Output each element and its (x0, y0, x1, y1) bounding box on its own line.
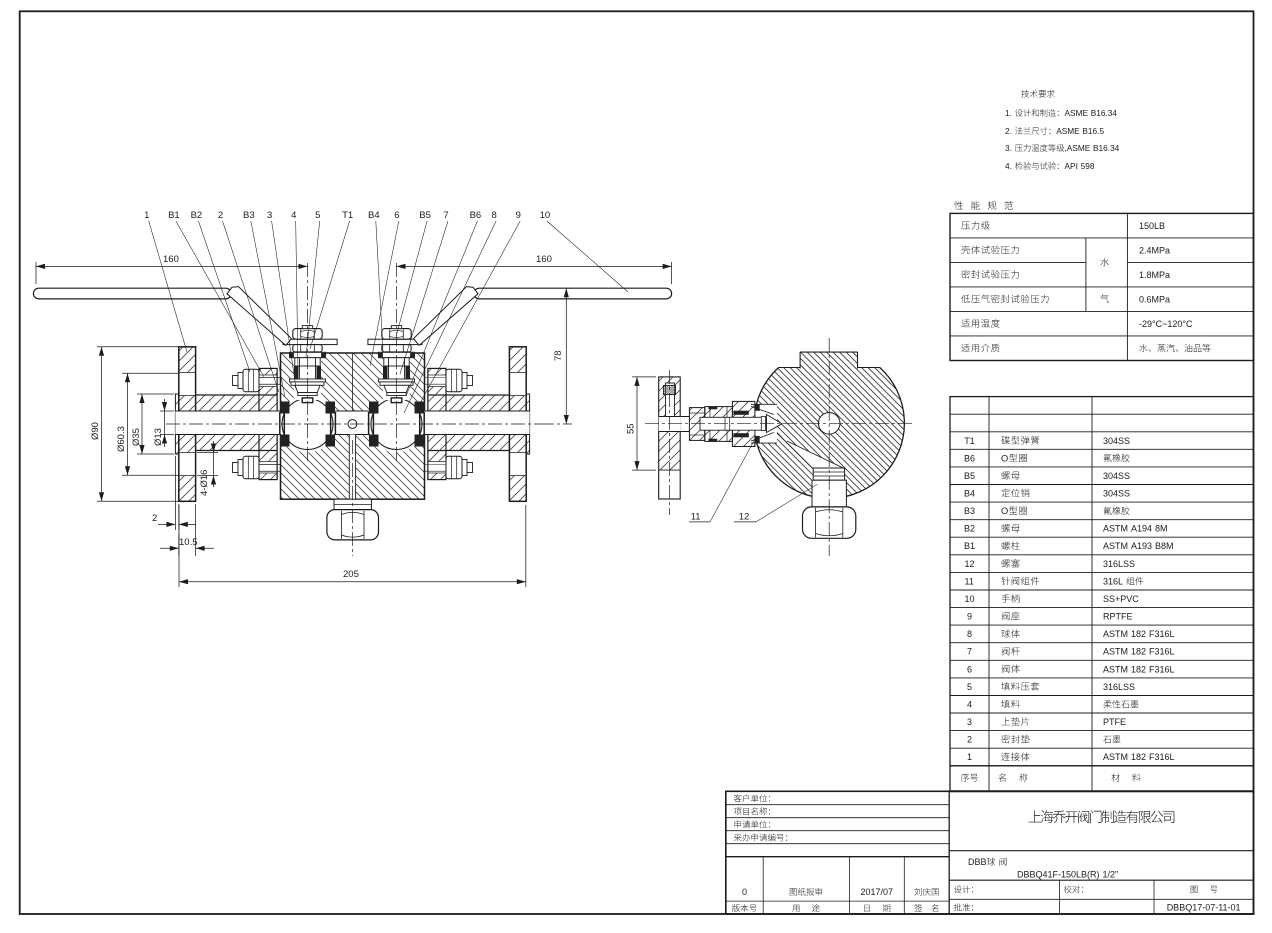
label 3 leader (272, 221, 296, 388)
front view: washer (238, 460, 243, 476)
svg-text:DBBQ17-07-11-01: DBBQ17-07-11-01 (1167, 903, 1241, 913)
dimension 205 (178, 505, 180, 587)
front view: stud B1 end (467, 463, 473, 473)
svg-text:4: 4 (967, 700, 972, 710)
svg-text:B6: B6 (470, 210, 482, 221)
svg-text:2.4MPa: 2.4MPa (1139, 245, 1170, 255)
svg-text:ASTM: ASTM (1103, 647, 1128, 657)
side view: shoulders (779, 367, 801, 369)
side view: top notch whiteout (750, 340, 910, 368)
front view: washer (462, 373, 467, 389)
svg-text:A194: A194 (1131, 524, 1152, 534)
svg-text:2.: 2. (1005, 126, 1012, 136)
label 7 leader (400, 221, 448, 374)
svg-text:6: 6 (394, 210, 399, 221)
front view: handle eye plate (283, 339, 337, 344)
svg-text:7: 7 (443, 210, 448, 221)
svg-text:-29°C~120°C: -29°C~120°C (1139, 319, 1193, 329)
front view: stem tang in ball slot (302, 398, 313, 403)
side view: top boss block (800, 352, 857, 368)
front view: washer (238, 373, 243, 389)
svg-text:9: 9 (967, 612, 972, 622)
front view: right flange (mirror) (509, 347, 526, 373)
side view: plug hex head (803, 507, 856, 538)
label B3 leader (251, 221, 285, 397)
svg-text:10: 10 (540, 210, 551, 221)
svg-text:2: 2 (152, 513, 157, 524)
svg-text:O: O (1001, 453, 1008, 463)
svg-text:1.: 1. (1005, 108, 1012, 118)
svg-text:ASTM: ASTM (1103, 524, 1128, 534)
svg-text:ASTM: ASTM (1103, 752, 1128, 762)
dimension dia60.3 (122, 372, 178, 374)
title block frame (726, 791, 1254, 914)
front view: left ball cavity (279, 396, 336, 453)
dimension dia90 (97, 346, 178, 348)
front view: right handle bar (474, 288, 672, 299)
svg-text:1.8MPa: 1.8MPa (1139, 270, 1170, 280)
front view: drain passage (349, 435, 355, 500)
BOM header row 序号/名称/材料 (961, 773, 969, 781)
svg-text:B1: B1 (964, 541, 975, 551)
label 9 leader (419, 221, 520, 405)
svg-text:1: 1 (144, 210, 149, 221)
front view: left connector neck (part 1) (196, 395, 278, 411)
side view: vertical centerline (828, 338, 830, 556)
front view: drain boss (334, 499, 371, 509)
svg-text:B16.5: B16.5 (1082, 126, 1104, 136)
svg-text:5: 5 (967, 682, 972, 692)
front view: right connector clamp ring (428, 368, 446, 395)
svg-text:Ø90: Ø90 (90, 422, 101, 440)
front view: stem tang in ball slot (391, 398, 402, 403)
label 10 leader (547, 221, 628, 292)
title block left columns (762, 857, 764, 914)
svg-text:B3: B3 (243, 210, 255, 221)
label 8 leader (404, 221, 496, 413)
front view: stem top end (302, 326, 312, 329)
front view: gland nut (382, 345, 411, 352)
svg-text:6: 6 (967, 664, 972, 674)
svg-text:8: 8 (967, 629, 972, 639)
front view: gland follower (384, 358, 409, 366)
label T1 leader (310, 221, 350, 349)
svg-text:304SS: 304SS (1103, 436, 1130, 446)
side view: vent flange plate (659, 377, 681, 417)
dimension 10.5 (178, 533, 180, 556)
svg-text:F316L: F316L (1149, 647, 1175, 657)
svg-text:SS+PVC: SS+PVC (1103, 594, 1139, 604)
svg-text:4: 4 (291, 210, 296, 221)
front view: right ball (371, 399, 422, 450)
svg-text:T1: T1 (964, 436, 975, 446)
side view: needle valve 11 union nut (689, 408, 704, 441)
front view: stem top end (391, 326, 401, 329)
svg-text:11: 11 (965, 576, 974, 586)
label 5 leader (306, 221, 320, 357)
front view: nut B2 (螺母) (243, 456, 259, 478)
svg-text:F316L: F316L (1149, 629, 1175, 639)
label 1 leader (149, 221, 187, 352)
front view: seats right ball (369, 402, 379, 414)
front view: handle eye plate (368, 339, 422, 344)
title block left rows (726, 804, 949, 806)
performance table columns (1126, 213, 1128, 360)
front view: nut B2 (螺母) (446, 369, 462, 391)
svg-text:0: 0 (742, 887, 747, 897)
svg-text:150LB: 150LB (1139, 221, 1165, 231)
svg-text:8: 8 (492, 210, 497, 221)
svg-text:1/2”: 1/2” (1103, 870, 1119, 880)
front view: stud B1 end (233, 376, 239, 386)
side view: bottom plug 12 threaded section (813, 468, 844, 480)
front view: valve body 6 (阀体) (281, 353, 425, 499)
front view: center hole (348, 420, 357, 429)
svg-text:B4: B4 (964, 489, 975, 499)
svg-text:B5: B5 (419, 210, 431, 221)
svg-text:316L: 316L (1103, 576, 1123, 586)
BOM table columns (988, 397, 990, 792)
svg-text:182: 182 (1131, 629, 1146, 639)
svg-text:Ø13: Ø13 (153, 428, 164, 446)
svg-text:10: 10 (965, 594, 975, 604)
title block divider main (948, 791, 950, 914)
svg-text:ASTM: ASTM (1103, 664, 1128, 674)
label B1 leader (176, 221, 264, 377)
svg-text:3: 3 (267, 210, 272, 221)
front view: stem cavity at x=307.5 (294, 352, 321, 400)
svg-text:O: O (1001, 506, 1008, 516)
svg-text:4-Ø16: 4-Ø16 (199, 470, 210, 496)
svg-text:B2: B2 (191, 210, 203, 221)
svg-text:7: 7 (967, 647, 972, 657)
front view: stem lower trapezoid (384, 385, 409, 392)
side view: needle valve packing nut (732, 401, 755, 446)
side view: bonnet nose taper lines (751, 407, 774, 415)
svg-text:5: 5 (315, 210, 320, 221)
svg-text:3: 3 (967, 717, 972, 727)
svg-text:205: 205 (343, 569, 359, 580)
svg-text:B16.34: B16.34 (1091, 108, 1118, 118)
svg-text:,ASME: ,ASME (1065, 143, 1091, 153)
front view: right flange raised face (526, 394, 529, 411)
front view: left connector clamp ring (259, 368, 277, 395)
front view: stem lower trapezoid (295, 385, 320, 392)
svg-text:304SS: 304SS (1103, 471, 1130, 481)
front view: body joint line (351, 353, 353, 411)
front view: stud B1 end (467, 376, 473, 386)
dimension dia35 (137, 393, 174, 395)
side view: plug body (812, 480, 846, 507)
svg-text:DBBQ41F-150LB(R): DBBQ41F-150LB(R) (1017, 870, 1100, 880)
svg-text:160: 160 (163, 254, 179, 265)
side view: plate pipe bore (659, 417, 681, 432)
front view: stem collar plates (290, 379, 326, 382)
side view: center bore hole (818, 413, 840, 435)
svg-text:316LSS: 316LSS (1103, 682, 1135, 692)
svg-text:182: 182 (1131, 752, 1146, 762)
front view: seats 9 (阀座) left ball (280, 402, 290, 414)
svg-text:55: 55 (626, 423, 637, 434)
front view: stem 7 (阀杆) (299, 358, 301, 379)
svg-text:1: 1 (967, 752, 972, 762)
label 6 leader (370, 221, 399, 366)
label B6 leader (406, 221, 477, 396)
svg-text:B2: B2 (964, 524, 975, 534)
front view: stem 7 (阀杆) (388, 358, 390, 379)
dimension 4-dia16 (197, 452, 218, 454)
svg-text:ASTM: ASTM (1103, 541, 1128, 551)
side view: thread marks on hex body (709, 407, 718, 409)
label B5 leader (397, 221, 427, 333)
front view: stud B1 end (233, 463, 239, 473)
front view: left handle 10 (手柄) bar (33, 288, 231, 299)
side view: body circle (hatched) (754, 348, 904, 498)
svg-text:B5: B5 (964, 471, 975, 481)
svg-text:182: 182 (1131, 647, 1146, 657)
svg-text:12: 12 (965, 559, 975, 569)
svg-text:78: 78 (553, 350, 564, 361)
label 2 leader (223, 221, 279, 392)
title block left labels (734, 794, 742, 802)
svg-text:316LSS: 316LSS (1103, 559, 1135, 569)
svg-text:ASTM: ASTM (1103, 629, 1128, 639)
svg-text:4.: 4. (1005, 161, 1012, 171)
side view: needle collar (761, 417, 765, 431)
label 4 leader (296, 221, 298, 371)
side view: plate stem slot (666, 383, 675, 417)
side view: pipe to needle valve (680, 417, 690, 432)
side view: plate centerline (669, 370, 671, 515)
side view: body circle outline (754, 368, 904, 499)
title block right: product name cell (949, 879, 1253, 881)
svg-text:12: 12 (739, 512, 750, 523)
dimension dia13 (160, 410, 174, 412)
title block right: sign rows (949, 898, 1253, 900)
performance table 性能规范 (954, 201, 963, 210)
svg-text:API: API (1065, 161, 1078, 171)
title block right: company cell (949, 850, 1253, 852)
svg-text:B16.34: B16.34 (1093, 143, 1120, 153)
front view: seat sleeve edges crossing bore (279, 412, 281, 435)
side view: needle valve hex body (705, 407, 733, 442)
svg-text:F316L: F316L (1149, 664, 1175, 674)
svg-text:2: 2 (967, 735, 972, 745)
svg-text:ASME: ASME (1065, 108, 1089, 118)
svg-text:ASME: ASME (1056, 126, 1080, 136)
front view: left stem centerline (307, 263, 309, 462)
svg-text:160: 160 (536, 254, 552, 265)
svg-text:RPTFE: RPTFE (1103, 612, 1133, 622)
front view: nut B2 (螺母) (243, 369, 259, 391)
dimension 2 (174, 456, 176, 530)
front view: left handle bend (227, 287, 292, 346)
front view: right handle bend (414, 287, 479, 346)
front view: left ball 8 (球体) (282, 399, 333, 450)
svg-text:Ø35: Ø35 (131, 428, 142, 446)
front view: washer (462, 460, 467, 476)
svg-text:DBB: DBB (968, 857, 987, 867)
front view: stem cavity at x=396.5 (383, 352, 410, 400)
front view: packing 4 (填料) (294, 366, 299, 379)
svg-text:B1: B1 (168, 210, 180, 221)
front view: stem top nut B5 (293, 329, 322, 340)
front view: main horizontal centerline (166, 423, 540, 425)
svg-text:9: 9 (516, 210, 521, 221)
front view: right ball cavity (368, 396, 425, 453)
front view: gland follower (295, 358, 320, 366)
label B2 leader (198, 221, 250, 372)
side view: needle cone (767, 415, 783, 433)
svg-text:A193: A193 (1131, 541, 1152, 551)
front view: gasket 2 (密封垫) left (276, 368, 278, 479)
svg-text:B8M: B8M (1155, 541, 1174, 551)
svg-text:10.5: 10.5 (179, 537, 198, 548)
front view: gland flange 5 (填料压套) (379, 352, 415, 357)
svg-text:182: 182 (1131, 664, 1146, 674)
svg-text:T1: T1 (342, 210, 353, 221)
front view: stem collar plates (379, 379, 415, 382)
svg-text:11: 11 (691, 512, 701, 523)
svg-text:PTFE: PTFE (1103, 717, 1126, 727)
BOM table (parts list) (950, 397, 1254, 766)
side view: horizontal centerline (645, 422, 915, 424)
front view: left flange (part 1 连接体 flange) (179, 347, 196, 373)
front view: nut B2 (螺母) (446, 456, 462, 478)
front view: gasket 2 right (427, 368, 429, 479)
svg-text:B4: B4 (368, 210, 380, 221)
svg-text:F316L: F316L (1149, 752, 1175, 762)
svg-text:598: 598 (1081, 161, 1095, 171)
front view: stud shafts B1 (thread lines) (259, 377, 281, 379)
front view: packing 4 (填料) (383, 366, 388, 379)
front view: right stem centerline (396, 263, 398, 462)
dimension 160 right (671, 262, 673, 284)
svg-text:Ø60.3: Ø60.3 (116, 426, 127, 452)
side view: knurled cap (664, 386, 676, 395)
label B4 leader (376, 221, 383, 351)
svg-text:B3: B3 (964, 506, 975, 516)
front view: stem top nut B5 (382, 329, 411, 340)
dimension 55 (632, 376, 656, 378)
side view: bleed passage (777, 433, 845, 469)
svg-text:B6: B6 (964, 453, 975, 463)
front view: gland flange 5 (填料压套) (290, 352, 326, 357)
front view: bore band (175, 411, 529, 435)
technical notes 技术要求 (1021, 90, 1029, 98)
svg-text:8M: 8M (1155, 524, 1168, 534)
front view: right connector neck (428, 395, 510, 411)
front view: drain centerline (351, 440, 353, 556)
svg-text:304SS: 304SS (1103, 489, 1130, 499)
side view: needle (700, 417, 767, 430)
dimension 160 left (35, 262, 37, 284)
front view: left flange raised face (175, 394, 178, 411)
front view: gland nut (293, 345, 322, 352)
svg-text:2017/07: 2017/07 (861, 887, 894, 897)
side view: packing in port (755, 404, 760, 411)
side view: port cavity for needle valve (751, 404, 777, 443)
svg-text:0.6MPa: 0.6MPa (1139, 294, 1170, 304)
front view: drain plug hex (bottom) (327, 510, 379, 540)
svg-text:3.: 3. (1005, 143, 1012, 153)
dimension 78 (565, 288, 567, 424)
svg-text:2: 2 (218, 210, 223, 221)
